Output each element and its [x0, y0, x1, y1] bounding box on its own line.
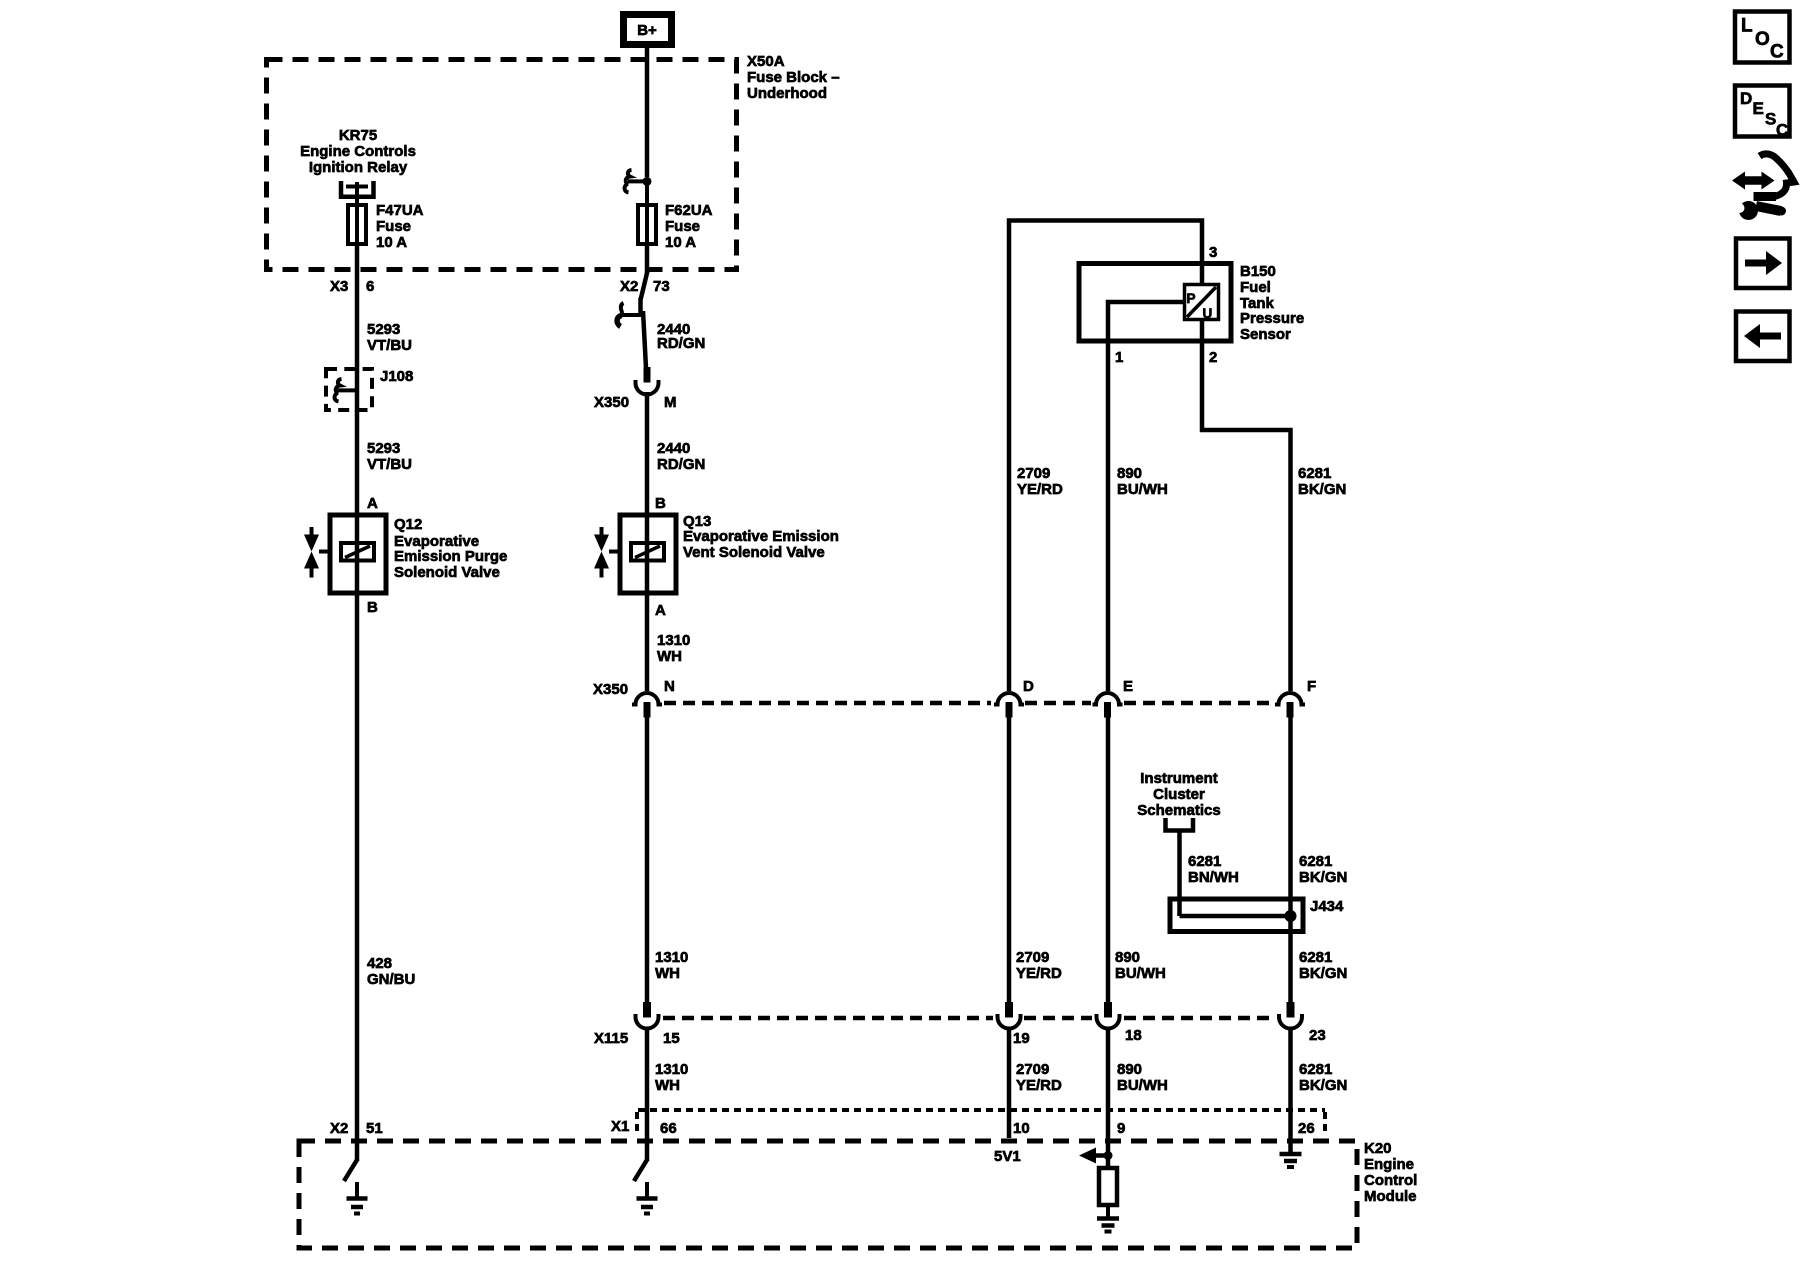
- relay KR75 contact symbol: [341, 181, 374, 203]
- svg-text:RD/GN: RD/GN: [657, 456, 705, 473]
- label 2440 RD/GN: [657, 321, 705, 352]
- solenoid valve Q13: [609, 515, 676, 593]
- svg-text:VT/BU: VT/BU: [367, 337, 412, 354]
- svg-text:5V1: 5V1: [994, 1148, 1021, 1165]
- svg-text:B+: B+: [637, 22, 657, 39]
- svg-text:Evaporative Emission: Evaporative Emission: [683, 528, 839, 545]
- ground inside ECM pin 51: [347, 1182, 368, 1214]
- svg-text:9: 9: [1117, 1120, 1125, 1137]
- icon LOC button: [1735, 12, 1790, 63]
- svg-text:D: D: [1023, 678, 1034, 695]
- label Q13 Evaporative Emission Vent Solenoid Valve: [683, 513, 839, 561]
- splice junction dot J434: [1285, 910, 1297, 922]
- label 428 GN/BU: [367, 955, 415, 988]
- label 6281 BK/GN upper right: [1299, 853, 1347, 886]
- wire X350 N to X115 15, circuit 1310 WH: [645, 716, 650, 1003]
- svg-text:A: A: [655, 602, 666, 619]
- wire X115 23 to ECM pin 26: [1288, 1028, 1293, 1152]
- label F62UA Fuse 10 A: [665, 202, 713, 251]
- svg-text:BK/GN: BK/GN: [1299, 965, 1347, 982]
- svg-text:10 A: 10 A: [665, 234, 696, 251]
- svg-text:1: 1: [1115, 349, 1123, 366]
- dashed harness tie line E to F: [1124, 701, 1273, 706]
- wire X115 15 to ECM X1 66, circuit 1310 WH: [645, 1028, 650, 1161]
- svg-text:X2: X2: [620, 278, 638, 295]
- svg-text:10 A: 10 A: [376, 234, 407, 251]
- dashed harness tie line X115 19 to 18: [1024, 1016, 1092, 1021]
- connector label X3 pin 6: [330, 278, 374, 295]
- svg-text:WH: WH: [655, 965, 680, 982]
- svg-text:18: 18: [1125, 1027, 1142, 1044]
- label 5293 VT/BU lower: [367, 440, 412, 473]
- svg-text:2440: 2440: [657, 440, 690, 457]
- label 6281 BK/GN above X115: [1299, 949, 1347, 982]
- splice J108 hook symbol: [335, 379, 358, 402]
- svg-text:19: 19: [1013, 1030, 1030, 1047]
- svg-text:1310: 1310: [655, 1061, 688, 1078]
- label X50A Fuse Block Underhood: [747, 53, 840, 102]
- svg-text:51: 51: [366, 1120, 383, 1137]
- svg-text:X1: X1: [611, 1118, 629, 1135]
- svg-text:3: 3: [1209, 244, 1217, 261]
- wire X115 18 to ECM pin 9: [1106, 1028, 1111, 1168]
- svg-text:1310: 1310: [655, 949, 688, 966]
- valve pintle symbol of Q13: [594, 527, 609, 578]
- svg-text:X350: X350: [593, 681, 628, 698]
- wire F to J434 and X115 23: [1288, 716, 1293, 1003]
- label Q12 Evaporative Emission Purge Solenoid Valve: [394, 516, 507, 581]
- svg-text:26: 26: [1298, 1120, 1315, 1137]
- wire ECM pin 10 to sensor pin 3, circuit 2709 YE/RD: [1009, 221, 1202, 692]
- label 6281 BK/GN below X115: [1299, 1061, 1347, 1094]
- label K20 Engine Control Module: [1364, 1140, 1417, 1205]
- label 890 BU/WH: [1117, 465, 1168, 498]
- label Instrument Cluster Schematics: [1137, 770, 1220, 819]
- svg-text:Cluster: Cluster: [1153, 786, 1205, 803]
- svg-text:Solenoid Valve: Solenoid Valve: [394, 564, 500, 581]
- label 1310 WH above X115: [655, 949, 688, 982]
- svg-text:Engine Controls: Engine Controls: [300, 143, 416, 160]
- svg-text:J108: J108: [380, 368, 413, 385]
- dashed harness tie line X115 18 to 23: [1124, 1016, 1275, 1021]
- bus bar hook at fuse F62UA: [625, 170, 652, 193]
- label F47UA Fuse 10 A: [376, 202, 424, 251]
- label X350 N: [593, 678, 675, 698]
- in-line connector X115 pin 23: [1279, 1002, 1302, 1029]
- svg-text:5293: 5293: [367, 321, 400, 338]
- in-line connector X115 pin 15: [636, 1002, 659, 1029]
- fuse F62UA: [638, 185, 656, 246]
- svg-text:2709: 2709: [1016, 949, 1049, 966]
- svg-text:428: 428: [367, 955, 392, 972]
- svg-text:Instrument: Instrument: [1140, 770, 1218, 787]
- svg-text:BU/WH: BU/WH: [1117, 1077, 1168, 1094]
- in-line connector X350 pin M: [636, 367, 659, 395]
- svg-text:M: M: [664, 394, 677, 411]
- in-line connector X350 pin D: [994, 693, 1024, 718]
- svg-text:10: 10: [1013, 1120, 1030, 1137]
- svg-text:1310: 1310: [657, 632, 690, 649]
- in-line connector X350 pin N: [632, 693, 662, 718]
- wire J108 to Q12, circuit 5293 VT/BU: [355, 410, 360, 515]
- svg-text:15: 15: [663, 1030, 680, 1047]
- label 890 BU/WH above X115: [1115, 949, 1166, 982]
- icon DESC button: [1735, 86, 1790, 140]
- fuse F47UA: [348, 203, 366, 246]
- svg-text:BU/WH: BU/WH: [1117, 481, 1168, 498]
- label X115 15: [594, 1030, 680, 1047]
- svg-text:GN/BU: GN/BU: [367, 971, 415, 988]
- wire Instrument Cluster to J434, circuit 6281 BN/WH: [1177, 831, 1182, 917]
- svg-text:YE/RD: YE/RD: [1017, 481, 1063, 498]
- svg-text:890: 890: [1117, 1061, 1142, 1078]
- svg-text:890: 890: [1115, 949, 1140, 966]
- in-line connector X350 pin E: [1093, 693, 1123, 718]
- svg-text:Emission Purge: Emission Purge: [394, 548, 507, 565]
- ground inside ECM pin 66: [637, 1182, 658, 1214]
- svg-text:Pressure: Pressure: [1240, 310, 1304, 327]
- in-line connector X115 pin 19: [998, 1002, 1021, 1029]
- svg-text:2: 2: [1209, 349, 1217, 366]
- wire sensor pin 2 jog to ground leg, circuit 6281 BK/GN: [1202, 341, 1291, 691]
- sensor B150 box: [1079, 264, 1231, 342]
- wire jog below X2 73 with harness hook: [617, 246, 647, 327]
- svg-text:Control: Control: [1364, 1172, 1417, 1189]
- svg-text:5293: 5293: [367, 440, 400, 457]
- label 6281 BN/WH: [1188, 853, 1239, 886]
- svg-text:66: 66: [660, 1120, 677, 1137]
- ground below resistor: [1097, 1205, 1119, 1232]
- svg-text:WH: WH: [655, 1077, 680, 1094]
- pin 1 lead inside sensor: [1108, 302, 1185, 341]
- label 5293 VT/BU: [367, 321, 412, 354]
- label 2440 RD/GN lower: [657, 440, 705, 473]
- svg-text:A: A: [367, 495, 378, 512]
- label 1310 WH: [657, 632, 690, 665]
- label X350 M: [594, 394, 677, 411]
- svg-text:6281: 6281: [1298, 465, 1331, 482]
- valve pintle symbol of Q12: [304, 527, 319, 578]
- svg-text:VT/BU: VT/BU: [367, 456, 412, 473]
- splice jumper inside J434: [1180, 914, 1291, 919]
- svg-text:S: S: [1765, 110, 1776, 129]
- wire Q12 to ECM pin 51, circuit 428 GN/BU: [355, 593, 360, 1161]
- connector label X2 pin 51: [330, 1120, 383, 1137]
- svg-text:6281: 6281: [1299, 1061, 1332, 1078]
- svg-text:Fuel: Fuel: [1240, 279, 1271, 296]
- connector label X2 pin 73: [620, 278, 670, 295]
- battery feed B+ terminal: [624, 15, 672, 45]
- wire D to X115 19: [1007, 716, 1012, 1003]
- svg-text:BU/WH: BU/WH: [1115, 965, 1166, 982]
- svg-text:2709: 2709: [1017, 465, 1050, 482]
- svg-text:Fuse: Fuse: [376, 218, 411, 235]
- svg-text:X2: X2: [330, 1120, 348, 1137]
- dashed harness tie line X115 15 to 19: [663, 1016, 993, 1021]
- svg-text:C: C: [1770, 42, 1784, 63]
- ECM driver contact for pin 51: [344, 1159, 358, 1181]
- svg-text:F62UA: F62UA: [665, 202, 713, 219]
- svg-text:890: 890: [1117, 465, 1142, 482]
- svg-text:Engine: Engine: [1364, 1156, 1414, 1173]
- svg-text:BN/WH: BN/WH: [1188, 869, 1239, 886]
- label 890 BU/WH below X115: [1117, 1061, 1168, 1094]
- svg-text:E: E: [1753, 99, 1764, 118]
- svg-text:BK/GN: BK/GN: [1299, 1077, 1347, 1094]
- svg-text:6281: 6281: [1299, 949, 1332, 966]
- svg-text:O: O: [1755, 29, 1770, 50]
- ECM K20 dashed boundary: [299, 1141, 1357, 1248]
- svg-text:X3: X3: [330, 278, 348, 295]
- dashed harness tie line X350 N to D: [664, 701, 991, 706]
- wire sensor pin 1 to ECM pin 9, circuit 890 BU/WH: [1106, 341, 1111, 691]
- label KR75 Engine Controls Ignition Relay: [300, 127, 416, 176]
- svg-text:6281: 6281: [1299, 853, 1332, 870]
- svg-text:RD/GN: RD/GN: [657, 335, 705, 352]
- svg-text:F47UA: F47UA: [376, 202, 424, 219]
- pressure transducer symbol P/U: [1185, 285, 1219, 322]
- svg-text:2709: 2709: [1016, 1061, 1049, 1078]
- svg-text:6: 6: [366, 278, 374, 295]
- svg-text:Q12: Q12: [394, 516, 422, 533]
- svg-text:J434: J434: [1310, 898, 1344, 915]
- svg-text:X115: X115: [594, 1030, 628, 1047]
- wire through J108: [355, 370, 360, 412]
- svg-text:B: B: [655, 495, 666, 512]
- fuse block X50A dashed boundary: [267, 60, 737, 270]
- label 2709 YE/RD: [1017, 465, 1063, 498]
- in-line connector X350 pin F: [1275, 693, 1305, 718]
- svg-text:K20: K20: [1364, 1140, 1392, 1157]
- svg-text:YE/RD: YE/RD: [1016, 1077, 1062, 1094]
- svg-text:YE/RD: YE/RD: [1016, 965, 1062, 982]
- label 2709 YE/RD below X115: [1016, 1061, 1062, 1094]
- ECM driver contact for pin 66: [634, 1159, 648, 1181]
- svg-text:C: C: [1776, 121, 1788, 140]
- splice J108 dashed box: [326, 369, 372, 410]
- svg-text:X50A: X50A: [747, 53, 785, 70]
- wire X3-6 to J108, circuit 5293 VT/BU: [355, 246, 360, 370]
- icon back arrow button: [1736, 312, 1790, 362]
- svg-text:KR75: KR75: [339, 127, 377, 144]
- svg-text:Vent Solenoid Valve: Vent Solenoid Valve: [683, 544, 825, 561]
- svg-text:B: B: [367, 599, 378, 616]
- splice pack J434 box: [1170, 899, 1303, 932]
- wire B+ to fuse F62UA: [645, 48, 650, 177]
- svg-text:Sensor: Sensor: [1240, 326, 1291, 343]
- svg-text:E: E: [1123, 678, 1133, 695]
- ECM connector X1 dotted outline: [637, 1110, 1325, 1135]
- solenoid valve Q12: [319, 515, 386, 593]
- wire X350 M to Q13, circuit 2440 RD/GN: [645, 392, 650, 515]
- label X1 66: [611, 1118, 677, 1137]
- wire hook to X350 M, circuit 2440 RD/GN: [643, 311, 646, 368]
- wire X115 19 to ECM pin 10: [1007, 1028, 1012, 1138]
- icon forward arrow button: [1736, 239, 1790, 289]
- icon navigate double arrow with wrench: [1732, 154, 1794, 220]
- svg-text:23: 23: [1309, 1027, 1326, 1044]
- svg-text:BK/GN: BK/GN: [1299, 869, 1347, 886]
- svg-text:Schematics: Schematics: [1137, 802, 1220, 819]
- svg-text:P: P: [1187, 291, 1196, 306]
- in-line connector X115 pin 18: [1097, 1002, 1120, 1029]
- label B150 Fuel Tank Pressure Sensor: [1240, 263, 1304, 343]
- svg-text:F: F: [1307, 678, 1316, 695]
- svg-text:D: D: [1740, 89, 1752, 108]
- svg-text:Fuse: Fuse: [665, 218, 700, 235]
- svg-text:X350: X350: [594, 394, 629, 411]
- svg-text:N: N: [664, 678, 675, 695]
- svg-text:BK/GN: BK/GN: [1298, 481, 1346, 498]
- wire Q13 to X350 N, circuit 1310 WH: [645, 593, 650, 691]
- 5 volt reference arrow inside ECM: [1079, 1148, 1113, 1164]
- svg-text:Underhood: Underhood: [747, 85, 827, 102]
- svg-text:Fuse Block –: Fuse Block –: [747, 69, 840, 86]
- svg-text:L: L: [1741, 16, 1753, 37]
- dashed harness tie line D to E: [1025, 701, 1091, 706]
- ground at ECM pin 26: [1280, 1154, 1302, 1167]
- off-page bracket to Instrument Cluster: [1166, 818, 1194, 831]
- label 2709 YE/RD above X115: [1016, 949, 1062, 982]
- svg-text:B150: B150: [1240, 263, 1276, 280]
- svg-text:6281: 6281: [1188, 853, 1221, 870]
- pull-up resistor inside ECM: [1099, 1168, 1117, 1205]
- svg-text:WH: WH: [657, 648, 682, 665]
- pin 2 lead inside sensor: [1200, 318, 1205, 341]
- svg-text:73: 73: [653, 278, 670, 295]
- label 6281 BK/GN: [1298, 465, 1346, 498]
- svg-text:Ignition Relay: Ignition Relay: [309, 159, 408, 176]
- wire E to X115 18: [1106, 716, 1111, 1003]
- label 1310 WH below X115: [655, 1061, 688, 1094]
- pin 3 lead inside sensor: [1200, 264, 1205, 287]
- svg-text:Module: Module: [1364, 1188, 1417, 1205]
